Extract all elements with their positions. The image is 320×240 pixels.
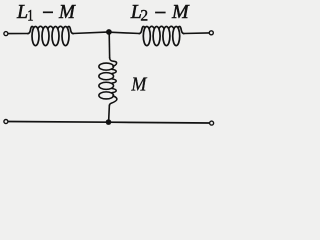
inductor coil L1-M bbox=[28, 26, 73, 45]
wire: L2-M to top-right terminal bbox=[183, 32, 209, 35]
wire: M coil to bottom node bbox=[108, 105, 111, 123]
label: L1 - M (left inductor) bbox=[16, 1, 76, 25]
wire: top node down to M coil bbox=[108, 33, 110, 59]
terminal: bottom-left bbox=[4, 120, 8, 124]
wire: top-left terminal to L1-M bbox=[8, 33, 28, 35]
terminal: bottom-right bbox=[210, 121, 214, 125]
node: top junction dot bbox=[106, 29, 112, 35]
label: L2 - M (right inductor) bbox=[130, 1, 190, 25]
wire: bottom rail left bbox=[8, 121, 108, 124]
terminal: top-right bbox=[209, 31, 213, 35]
svg-text:2: 2 bbox=[140, 8, 148, 25]
svg-text:1: 1 bbox=[27, 8, 33, 25]
wire: L1-M to top node bbox=[73, 32, 107, 33]
svg-text:M: M bbox=[171, 1, 190, 23]
svg-text:M: M bbox=[58, 1, 76, 23]
wire: top node to L2-M bbox=[107, 32, 140, 33]
inductor coil L2-M bbox=[139, 26, 184, 45]
node: bottom junction dot bbox=[106, 119, 112, 125]
svg-text:M: M bbox=[131, 73, 148, 95]
wire: bottom rail right bbox=[109, 121, 210, 124]
inductor coil M bbox=[99, 58, 117, 106]
terminal: top-left bbox=[4, 32, 8, 36]
circuit: T-equivalent of two coupled inductors bbox=[0, 0, 220, 135]
